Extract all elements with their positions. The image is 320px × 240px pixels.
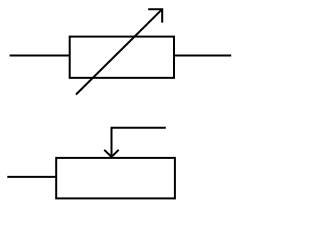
- wire (right lead of variable resistor): [174, 55, 231, 57]
- arrowhead (wiper arrow pointing down onto body): [104, 150, 119, 157]
- wire (wiper tap: horizontal run and vertical drop): [112, 128, 166, 157]
- variable-resistor arrow shaft (diagonal through body): [76, 9, 162, 94]
- resistor body (variable resistor rectangle): [70, 37, 174, 78]
- wire (left lead of tapped resistor): [7, 176, 56, 178]
- arrowhead (top-right, open corner style): [148, 9, 162, 22]
- resistor body (tapped resistor rectangle): [56, 158, 175, 199]
- wire (left lead of variable resistor): [10, 55, 70, 57]
